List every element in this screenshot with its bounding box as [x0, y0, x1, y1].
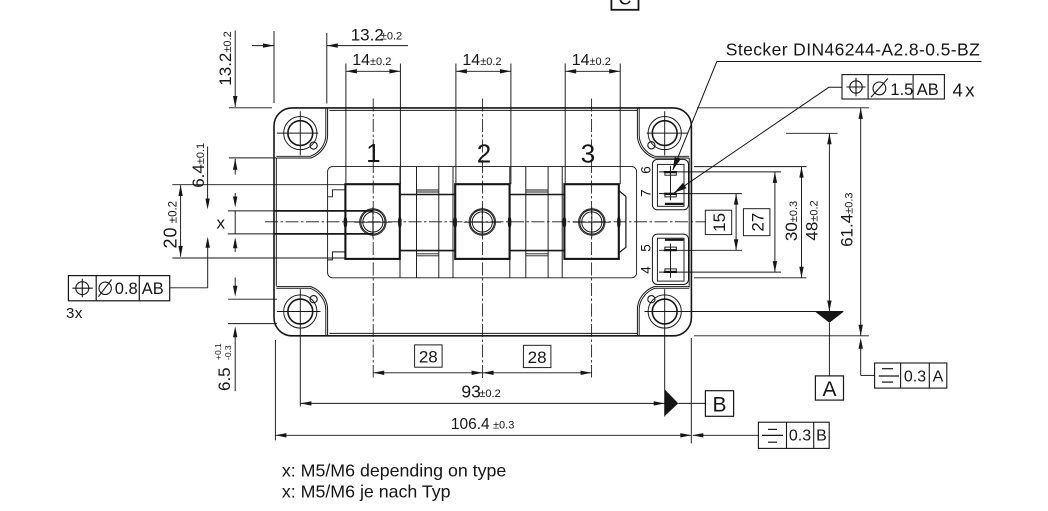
pin 6 reference line	[659, 171, 781, 173]
svg-text:28: 28	[419, 348, 438, 367]
datum C box	[611, 0, 638, 10]
dim 15 box	[705, 210, 731, 234]
anti-rotation nub bottom-left	[310, 296, 317, 303]
dim 28 box 2	[523, 345, 551, 367]
crosshair top-right hole	[647, 132, 689, 134]
datum A stem	[828, 323, 830, 376]
svg-text:3x: 3x	[66, 305, 83, 322]
pin 6 blade	[664, 171, 677, 173]
deck divider right of block 3	[636, 167, 638, 278]
svg-text:15: 15	[710, 213, 729, 232]
mold mark on block edge	[508, 217, 511, 227]
dim 14 line+arrows c=592.7	[565, 70, 620, 72]
terminal 1 screw hole ring	[361, 210, 385, 234]
connector housing bottom inner wall	[657, 238, 684, 281]
dim 93 line+arrows	[300, 402, 664, 404]
terminal 1 centerline	[372, 99, 374, 378]
terminal block 2	[455, 184, 509, 259]
dim 13.2 left line+arrows	[234, 31, 236, 108]
anti-rotation nub top-left	[310, 142, 317, 149]
svg-text:±0.3: ±0.3	[493, 419, 514, 431]
dim 61.4 line+arrows	[860, 108, 862, 336]
dim 14 line+arrows c=483.4	[456, 70, 511, 72]
connector label leader to pin 6	[673, 62, 717, 171]
dim 20 ext lines	[172, 184, 345, 186]
datum B triangle	[665, 389, 679, 416]
svg-text:+0.1: +0.1	[213, 343, 223, 360]
terminal 1 screw hole bore	[363, 212, 383, 232]
terminal 3 centerline	[591, 99, 593, 378]
terminal 1 crosshair	[354, 221, 391, 223]
lid inner line right	[688, 158, 690, 287]
svg-text:Stecker DIN46244-A2.8-0.5-BZ: Stecker DIN46244-A2.8-0.5-BZ	[726, 40, 980, 60]
dim 13.2 top ext lines	[273, 31, 275, 103]
connector housing bottom shelf	[665, 239, 684, 241]
barrier strip between terminals 1-2	[416, 167, 418, 278]
lid inner line top	[329, 109, 637, 111]
svg-text:x: M5/M6 je nach Typ: x: M5/M6 je nach Typ	[282, 482, 451, 502]
svg-text:0.3: 0.3	[904, 369, 926, 386]
frame 0.3B symmetry symbol	[768, 428, 777, 430]
dim 13.2 top line+arrows	[252, 45, 274, 47]
svg-text:±0.2: ±0.2	[381, 31, 402, 43]
svg-text:93: 93	[461, 382, 480, 402]
dim 14 ext lines at x=345.9/400.4	[345, 64, 347, 185]
connector label underline	[717, 61, 982, 63]
dim 6.5 ext lines	[228, 298, 277, 300]
dim 14 ext lines at x=455.9/510.9	[455, 64, 457, 185]
crosshair bottom-right hole + datum extensions	[645, 311, 844, 313]
terminal block 1	[345, 184, 399, 259]
svg-text:4: 4	[639, 266, 654, 274]
connector housing top inner wall	[657, 164, 684, 206]
mold mark on block edge	[454, 217, 457, 227]
mounting hole top-right outer ring	[648, 117, 681, 150]
mounting hole bottom-left bore	[288, 299, 313, 324]
dim 15 line+arrows	[735, 194, 737, 251]
lid inner line bottom	[329, 332, 637, 334]
tab bottom edge	[228, 233, 274, 235]
svg-text:28: 28	[528, 348, 547, 367]
pin 7 blade	[664, 193, 677, 195]
deck slot step lower-left	[328, 252, 346, 260]
dim 28 line+arrows	[373, 372, 591, 374]
main horizontal centerline	[265, 221, 706, 223]
terminal 3 screw hole outer ring	[579, 209, 606, 236]
frame pos-0.8 position symbol	[76, 282, 89, 295]
svg-text:3: 3	[581, 139, 595, 169]
dim 6.5 line+arrows	[234, 278, 236, 287]
mounting hole top-left outer ring	[284, 117, 317, 150]
crosshair bottom-left hole + 93 extension	[277, 311, 321, 313]
dim 6.4 leader line+arrow	[207, 147, 209, 200]
terminal 3 crosshair	[573, 221, 610, 223]
dim 6.5 text	[213, 343, 234, 391]
dim 106.4 line+arrows	[275, 434, 691, 436]
mounting hole bottom-left outer ring	[284, 295, 317, 328]
mold mark on block edge	[344, 217, 347, 227]
mold mark on block edge	[398, 217, 401, 227]
terminal deck outline	[328, 167, 637, 278]
svg-text:-0.3: -0.3	[223, 345, 233, 360]
svg-text:AB: AB	[142, 280, 164, 298]
dim 61.4 ext lines	[697, 107, 869, 109]
dim 30 line+arrows	[801, 167, 803, 278]
tab top edge	[228, 210, 274, 212]
svg-text:AB: AB	[917, 81, 939, 99]
mounting hole top-left bore	[288, 121, 313, 146]
corner boss top-right	[637, 108, 689, 158]
mold mark on block edge	[563, 217, 566, 227]
svg-text:27: 27	[749, 213, 768, 232]
dim 48 line+arrows	[828, 133, 830, 311]
svg-text:C: C	[618, 0, 631, 9]
corner boss bottom-left	[276, 287, 327, 336]
dim 30 ext lines	[694, 166, 807, 168]
terminal 2 centerline	[482, 99, 484, 381]
module body outer outline	[274, 108, 691, 336]
corner boss top-left	[276, 108, 327, 158]
terminal 1 screw hole outer ring	[360, 209, 387, 236]
lid inner line left	[275, 158, 277, 286]
mounting hole bottom-right outer ring	[648, 295, 681, 328]
datum A triangle	[815, 312, 843, 323]
dim 20 line+arrows	[180, 185, 182, 256]
pin 7 slot	[665, 195, 676, 197]
terminal 3 screw hole ring	[580, 210, 604, 234]
frame 0.3B box	[758, 422, 829, 448]
frame pos-0.8 diameter symbol	[99, 282, 111, 294]
datum B stem	[678, 402, 705, 404]
datum B box	[705, 391, 733, 417]
dim 27 box	[743, 209, 770, 236]
connector housing bottom centerline	[670, 244, 672, 278]
corner boss bottom-right	[637, 287, 689, 336]
frame 0.3A symmetry symbol	[882, 368, 893, 370]
svg-text:0.8: 0.8	[115, 280, 138, 298]
frame pos-0.8 leader	[170, 287, 208, 289]
svg-text:±0.2: ±0.2	[479, 388, 500, 400]
connector housing top centerline	[670, 166, 672, 200]
dim 27 line+arrows	[774, 172, 776, 272]
terminal 2 screw hole bore	[472, 212, 492, 232]
terminal 3 screw hole bore	[582, 212, 602, 232]
frame 0.3A box	[875, 363, 947, 388]
svg-text:13.2: 13.2	[351, 26, 384, 45]
terminal 2 screw hole ring	[470, 210, 494, 234]
connector housing bottom outline	[652, 234, 688, 284]
deck slot step upper-left	[328, 190, 346, 197]
pin 4 slot	[665, 269, 676, 271]
anti-rotation nub top-right	[648, 142, 655, 149]
svg-text:B: B	[712, 393, 726, 416]
pin 6 slot	[665, 173, 676, 175]
frame pos-1.5 leader to pin 7	[674, 87, 842, 193]
svg-text:4x: 4x	[953, 80, 978, 101]
terminal 2 crosshair	[464, 221, 501, 223]
anti-rotation nub bottom-right	[648, 296, 655, 303]
svg-text:1: 1	[366, 138, 380, 168]
frame pos-0.8 box	[68, 276, 169, 301]
terminal 3 right tab protrusion	[619, 191, 626, 253]
terminal block 3	[564, 184, 618, 259]
mounting hole top-right bore	[652, 121, 677, 146]
svg-text:A: A	[933, 369, 944, 386]
svg-text:7: 7	[639, 190, 654, 198]
svg-text:106.4: 106.4	[451, 416, 490, 433]
mold mark on block edge	[617, 217, 620, 227]
svg-text:1.5: 1.5	[890, 81, 913, 99]
dim 14 line+arrows c=373.2	[346, 70, 401, 72]
crosshair top-left hole	[277, 132, 319, 134]
frame 0.3B leader+arrow	[693, 434, 759, 436]
dim 48 ext line top	[786, 132, 838, 134]
pin 4 blade	[664, 271, 677, 273]
dim 13.2 left ext lines	[229, 107, 272, 109]
connector housing top outline	[652, 159, 688, 209]
svg-text:5: 5	[639, 244, 654, 252]
barrier strip between terminals 2-3	[525, 167, 527, 278]
connector housing top shelf	[665, 203, 684, 205]
svg-text:0.3: 0.3	[789, 428, 811, 445]
svg-text:x: x	[217, 214, 226, 233]
svg-text:A: A	[822, 378, 836, 401]
pin 4 reference line	[659, 271, 781, 273]
svg-text:6: 6	[639, 166, 654, 174]
pin 7 reference line	[659, 193, 742, 195]
svg-text:6.5: 6.5	[215, 367, 234, 391]
datum A box	[815, 376, 843, 400]
frame pos-1.5 position symbol	[850, 81, 862, 93]
dim 28 box 1	[415, 345, 443, 367]
svg-text:x: M5/M6 depending on type: x: M5/M6 depending on type	[282, 461, 506, 481]
frame pos-1.5 diameter symbol	[873, 82, 886, 95]
frame pos-1.5 box	[842, 75, 944, 99]
pin 5 blade	[664, 249, 677, 251]
frame 0.3A leader+arrow	[859, 338, 863, 349]
svg-text:2: 2	[477, 139, 491, 169]
pin 5 reference line	[659, 249, 742, 251]
pin 5 slot	[665, 247, 676, 249]
dim 14 ext lines at x=565.2/620.2	[564, 64, 566, 185]
mounting hole bottom-right bore	[652, 299, 677, 324]
terminal 2 screw hole outer ring	[469, 209, 496, 236]
svg-text:B: B	[816, 428, 827, 445]
dim 106.4 ext lines	[274, 340, 276, 440]
dim x line+arrows	[234, 193, 236, 197]
